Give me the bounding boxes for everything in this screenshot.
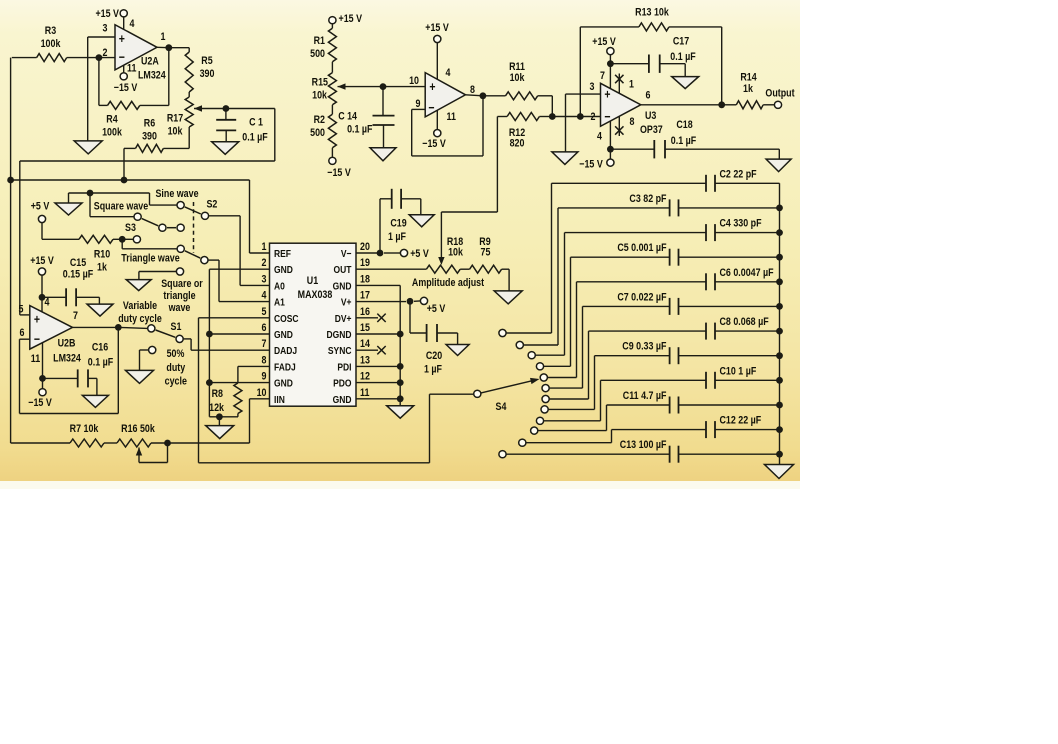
wire R16 to IIN pin 10 bbox=[168, 442, 250, 444]
resistor R7 10k bbox=[70, 423, 99, 435]
svg-text:GND: GND bbox=[274, 264, 293, 276]
ground U2A +input bbox=[74, 141, 102, 154]
svg-text:C7 0.022 µF: C7 0.022 µF bbox=[617, 292, 666, 304]
svg-text:wave: wave bbox=[168, 302, 191, 314]
pin 12 PDO bbox=[333, 378, 352, 390]
svg-text:10: 10 bbox=[257, 387, 267, 399]
wire V+ pin 17 to +5V bbox=[356, 301, 406, 303]
ground C20 bbox=[446, 345, 469, 356]
buffer feedback wire bbox=[412, 108, 426, 110]
svg-text:0.1 µF: 0.1 µF bbox=[88, 357, 113, 369]
svg-text:PDO: PDO bbox=[333, 378, 352, 390]
pin 15 DGND bbox=[326, 329, 351, 341]
node GND pin 9 bbox=[206, 379, 213, 386]
potentiometer R15 10k bbox=[312, 77, 329, 89]
node U2A inverting input bbox=[96, 54, 103, 61]
node R10 / triangle line bbox=[119, 236, 126, 243]
-15V terminal R2 bbox=[329, 157, 336, 164]
svg-text:C20: C20 bbox=[426, 350, 443, 362]
svg-text:3: 3 bbox=[103, 23, 108, 35]
pin 16 DV+ no-connect X bbox=[356, 317, 378, 319]
node GND pin 6 bbox=[206, 331, 213, 338]
pin 13 PDI bbox=[337, 362, 351, 374]
capacitor C18 0.1uF bbox=[676, 119, 693, 131]
svg-text:REF: REF bbox=[274, 248, 291, 260]
svg-text:17: 17 bbox=[360, 290, 370, 302]
svg-text:−: − bbox=[34, 331, 40, 346]
node bus C12 bbox=[776, 426, 783, 433]
ground capacitor bus bbox=[765, 465, 794, 479]
svg-text:C 1: C 1 bbox=[249, 117, 263, 129]
svg-text:3: 3 bbox=[262, 274, 267, 286]
svg-text:6: 6 bbox=[262, 322, 267, 334]
svg-text:11: 11 bbox=[127, 63, 137, 75]
capacitor C2 22 pF bbox=[552, 182, 707, 184]
wire U2A +input to ground bbox=[88, 36, 115, 38]
node C14 tap bbox=[380, 83, 387, 90]
resistor R3 100k bbox=[45, 25, 57, 37]
pin 20 V- bbox=[341, 248, 352, 260]
node U2B output bbox=[115, 324, 122, 331]
svg-text:−15 V: −15 V bbox=[422, 138, 446, 150]
capacitor C16 0.1uF bbox=[92, 342, 109, 354]
svg-text:390: 390 bbox=[200, 68, 215, 80]
svg-text:11: 11 bbox=[31, 353, 41, 365]
wire left rail R3/R7 bbox=[10, 58, 12, 443]
node C16 tap bbox=[39, 375, 46, 382]
svg-text:R4: R4 bbox=[106, 114, 118, 126]
svg-text:10k: 10k bbox=[168, 126, 183, 138]
pin 7 DADJ bbox=[274, 345, 297, 357]
svg-text:+15 V: +15 V bbox=[339, 13, 363, 25]
wire GND bus to ground bbox=[209, 416, 238, 418]
capacitor C3 82 pF bbox=[558, 207, 670, 209]
svg-text:OP37: OP37 bbox=[640, 124, 663, 136]
svg-text:1 µF: 1 µF bbox=[424, 364, 442, 376]
wire S4 contact 8 riser bbox=[594, 356, 596, 410]
op-amp U2B LM324 bbox=[30, 306, 73, 350]
svg-text:cycle: cycle bbox=[165, 376, 188, 388]
svg-text:C12 22 µF: C12 22 µF bbox=[720, 415, 762, 427]
R18 wiper from R12 bbox=[438, 257, 444, 265]
svg-text:+: + bbox=[34, 311, 40, 326]
node bus C13 bbox=[776, 451, 783, 458]
svg-text:S3: S3 bbox=[125, 222, 136, 234]
square-or-triangle output terminal bbox=[176, 268, 183, 275]
svg-text:+15 V: +15 V bbox=[425, 22, 449, 34]
svg-text:V+: V+ bbox=[341, 297, 352, 309]
IC U1 MAX038 bbox=[270, 243, 357, 406]
wire S4 contact 3 riser bbox=[564, 233, 566, 356]
node U3 feedback tie bbox=[577, 113, 584, 120]
svg-text:R17: R17 bbox=[167, 113, 184, 125]
svg-text:MAX038: MAX038 bbox=[298, 289, 333, 301]
ground C16 bbox=[82, 395, 108, 407]
svg-text:GND: GND bbox=[274, 329, 293, 341]
node C18 tap bbox=[607, 146, 614, 153]
svg-text:R14: R14 bbox=[740, 72, 757, 84]
wire S2 pole to A0 pin 3 bbox=[209, 215, 240, 217]
svg-text:U3: U3 bbox=[645, 110, 657, 122]
svg-text:C 14: C 14 bbox=[338, 111, 357, 123]
svg-text:C6 0.0047 µF: C6 0.0047 µF bbox=[720, 267, 774, 279]
switch S2b blade bbox=[185, 251, 200, 258]
switch S4 contact 8 bbox=[541, 406, 548, 413]
buffer -15V terminal bbox=[436, 110, 438, 129]
svg-text:DGND: DGND bbox=[326, 329, 351, 341]
potentiometer R17 10k bbox=[167, 113, 184, 125]
node R8 ground bbox=[216, 413, 223, 420]
resistor R12 820 bbox=[509, 127, 526, 139]
svg-text:4: 4 bbox=[45, 297, 50, 309]
svg-text:C5 0.001 µF: C5 0.001 µF bbox=[617, 242, 666, 254]
svg-text:7: 7 bbox=[73, 310, 78, 322]
node DGND pin 15 bbox=[397, 331, 404, 338]
capacitor C7 0.022 uF bbox=[583, 305, 670, 307]
wire C1 node to U2B +input bbox=[19, 161, 21, 315]
capacitor C6 0.0047 uF bbox=[577, 281, 707, 283]
ground R8/GND pins bbox=[206, 426, 234, 439]
potentiometer R16 50k bbox=[121, 423, 155, 435]
node R16 wiper tie bbox=[164, 440, 171, 447]
svg-text:100k: 100k bbox=[41, 38, 61, 50]
U3 +15V terminal bbox=[592, 36, 616, 48]
node bus C7 bbox=[776, 303, 783, 310]
capacitor C20 1uF bbox=[426, 350, 443, 362]
capacitor C9 0.33 uF bbox=[595, 355, 670, 357]
svg-text:Variable: Variable bbox=[123, 300, 158, 312]
svg-text:R2: R2 bbox=[314, 114, 326, 126]
node U3 output bbox=[641, 104, 722, 106]
op-amp U2 buffer bbox=[425, 73, 465, 117]
svg-text:7: 7 bbox=[600, 70, 605, 82]
wire COSC pin 5 bbox=[199, 317, 270, 319]
switch S2b triangle contact bbox=[177, 245, 184, 252]
capacitor C12 22 uF bbox=[612, 429, 707, 431]
wire square select bbox=[89, 193, 91, 217]
terminal +5V at V- bbox=[400, 249, 407, 256]
svg-text:C18: C18 bbox=[676, 119, 693, 131]
capacitor C4 330 pF bbox=[565, 232, 707, 234]
svg-text:Output: Output bbox=[765, 88, 795, 100]
svg-text:GND: GND bbox=[274, 378, 293, 390]
node bus C10 bbox=[776, 377, 783, 384]
wire GND pin 2 bus bbox=[209, 268, 269, 270]
svg-text:C13 100 µF: C13 100 µF bbox=[620, 439, 667, 451]
svg-text:V−: V− bbox=[341, 248, 352, 260]
svg-text:+15 V: +15 V bbox=[30, 255, 54, 267]
wire triangle select bbox=[121, 239, 123, 249]
label triangle wave bbox=[121, 253, 180, 265]
svg-text:C19: C19 bbox=[390, 218, 407, 230]
node bus C6 bbox=[776, 278, 783, 285]
svg-text:+: + bbox=[429, 79, 435, 94]
svg-text:9: 9 bbox=[262, 371, 267, 383]
switch S4 contact 11 bbox=[519, 439, 526, 446]
ground square-or-triangle bbox=[126, 280, 151, 291]
svg-text:820: 820 bbox=[510, 138, 525, 150]
buffer +15V terminal bbox=[425, 22, 449, 34]
wire S4 contact 1 riser bbox=[551, 183, 553, 333]
wire V- pin 20 to +5V bbox=[356, 252, 380, 254]
svg-text:2: 2 bbox=[262, 257, 267, 269]
svg-text:+15 V: +15 V bbox=[95, 8, 119, 20]
ground C1 bbox=[212, 142, 239, 155]
svg-text:PDI: PDI bbox=[337, 362, 351, 374]
switch S1 variable contact bbox=[118, 327, 147, 328]
svg-text:R6: R6 bbox=[144, 118, 156, 130]
wire wiper node to U2B loop bbox=[226, 108, 275, 110]
svg-text:0.1 µF: 0.1 µF bbox=[242, 132, 267, 144]
node bus C11 bbox=[776, 402, 783, 409]
svg-text:R16 50k: R16 50k bbox=[121, 423, 155, 435]
op-amp U3 OP37 bbox=[601, 83, 641, 126]
label square wave bbox=[94, 201, 149, 213]
svg-text:500: 500 bbox=[310, 48, 325, 60]
switch S4 wiper arrow bbox=[481, 380, 534, 393]
capacitor bus to ground bbox=[779, 183, 781, 464]
svg-text:5: 5 bbox=[19, 304, 24, 316]
U3 offset pin 8 X bbox=[618, 116, 620, 136]
svg-text:R13 10k: R13 10k bbox=[635, 7, 669, 19]
svg-text:9: 9 bbox=[416, 98, 421, 110]
svg-text:C8 0.068 µF: C8 0.068 µF bbox=[720, 316, 769, 328]
svg-text:50%: 50% bbox=[167, 348, 185, 360]
wire OUT pin 19 bbox=[356, 268, 426, 270]
switch S4 contact 10 bbox=[531, 427, 538, 434]
pin 14 SYNC bbox=[328, 345, 352, 357]
svg-text:+: + bbox=[604, 86, 610, 101]
node R6 on REF bus bbox=[121, 177, 128, 184]
svg-text:4: 4 bbox=[446, 67, 451, 79]
svg-text:10: 10 bbox=[409, 75, 419, 87]
svg-text:−15 V: −15 V bbox=[114, 82, 138, 94]
svg-text:GND: GND bbox=[333, 281, 352, 293]
svg-text:0.1 µF: 0.1 µF bbox=[347, 124, 372, 136]
svg-text:LM324: LM324 bbox=[53, 353, 81, 365]
svg-text:11: 11 bbox=[360, 387, 370, 399]
svg-text:Square or: Square or bbox=[161, 278, 203, 290]
+5V terminal R10 bbox=[31, 201, 50, 213]
svg-text:−: − bbox=[428, 100, 434, 115]
resistor R9 75 bbox=[479, 236, 491, 248]
ground C15 bbox=[87, 304, 113, 316]
svg-text:12k: 12k bbox=[209, 402, 224, 414]
svg-text:−15 V: −15 V bbox=[579, 159, 603, 171]
node U2A output pin 1 bbox=[161, 31, 166, 43]
svg-text:13: 13 bbox=[360, 355, 370, 367]
node square tap bbox=[87, 190, 94, 197]
node R17 wiper / C1 bbox=[223, 105, 230, 112]
potentiometer R18 10k bbox=[447, 236, 464, 248]
svg-text:5: 5 bbox=[262, 306, 267, 318]
resistor R1 500 bbox=[314, 35, 326, 47]
node PDI pin 13 bbox=[397, 363, 404, 370]
ground C17 bbox=[672, 77, 699, 89]
svg-text:Sine wave: Sine wave bbox=[155, 188, 198, 200]
+15V terminal R1 bbox=[339, 13, 363, 25]
svg-text:S2: S2 bbox=[207, 199, 218, 211]
svg-text:4: 4 bbox=[130, 18, 135, 30]
svg-text:FADJ: FADJ bbox=[274, 362, 296, 374]
svg-text:triangle: triangle bbox=[163, 290, 196, 302]
svg-text:+: + bbox=[119, 31, 125, 46]
svg-text:6: 6 bbox=[20, 327, 25, 339]
svg-text:1: 1 bbox=[629, 79, 634, 91]
pin 2 GND bbox=[274, 264, 293, 276]
node bus C9 bbox=[776, 352, 783, 359]
pin 6 GND bbox=[274, 329, 293, 341]
node bus C5 bbox=[776, 254, 783, 261]
svg-text:C15: C15 bbox=[70, 257, 87, 269]
wire S1 pole to DADJ pin 7 bbox=[184, 338, 192, 340]
svg-text:C10 1 µF: C10 1 µF bbox=[720, 366, 757, 378]
label variable duty cycle bbox=[123, 300, 158, 312]
node bus C8 bbox=[776, 328, 783, 335]
R16 wiper arrow bbox=[136, 448, 142, 456]
wire S4 contact 6 riser bbox=[582, 306, 584, 388]
svg-text:A1: A1 bbox=[274, 297, 285, 309]
svg-text:11: 11 bbox=[447, 111, 457, 123]
svg-text:OUT: OUT bbox=[334, 264, 352, 276]
pin 3 A0 bbox=[274, 281, 285, 293]
svg-text:500: 500 bbox=[310, 127, 325, 139]
resistor R13 10k feedback bbox=[635, 7, 669, 19]
svg-text:19: 19 bbox=[360, 257, 370, 269]
pin 5 COSC bbox=[274, 313, 299, 325]
pin 16 DV+ bbox=[335, 313, 352, 325]
pin 9 GND bbox=[274, 378, 293, 390]
wire S4 contact 4 riser bbox=[570, 257, 572, 366]
svg-text:C3 82 pF: C3 82 pF bbox=[629, 193, 666, 205]
U2B +15V terminal bbox=[30, 255, 54, 267]
svg-text:A0: A0 bbox=[274, 281, 285, 293]
capacitor C1 0.1uF bbox=[249, 117, 263, 129]
switch S2 pole bbox=[201, 212, 208, 219]
wire S4 contact 10 riser bbox=[606, 405, 608, 431]
node C15 tap bbox=[39, 294, 46, 301]
svg-text:1k: 1k bbox=[743, 83, 753, 95]
switch S1 blade bbox=[156, 330, 176, 337]
svg-text:C4 330 pF: C4 330 pF bbox=[720, 218, 762, 230]
switch S4 contact 6 bbox=[542, 385, 549, 392]
wire S4 contact 2 riser bbox=[557, 208, 559, 345]
node PDO pin 12 bbox=[397, 379, 404, 386]
ganged switch dashed link bbox=[193, 202, 195, 253]
svg-text:6: 6 bbox=[646, 90, 651, 102]
svg-text:−: − bbox=[119, 49, 125, 64]
svg-text:U2A: U2A bbox=[141, 56, 159, 68]
svg-text:+5 V: +5 V bbox=[410, 248, 429, 260]
svg-text:C16: C16 bbox=[92, 342, 109, 354]
wire R6 to REF bus bbox=[123, 148, 125, 180]
svg-text:R3: R3 bbox=[45, 25, 57, 37]
svg-text:Square wave: Square wave bbox=[94, 201, 149, 213]
wire to U3 -input bbox=[552, 116, 600, 118]
switch S4 contact 1 bbox=[499, 329, 506, 336]
node bus C4 bbox=[776, 229, 783, 236]
switch S2 sine contact bbox=[177, 202, 184, 209]
svg-text:U1: U1 bbox=[307, 275, 319, 287]
pin 8 FADJ bbox=[274, 362, 296, 374]
wire REF bus to MAX038 pin 1 bbox=[11, 179, 250, 181]
svg-text:R8: R8 bbox=[212, 388, 224, 400]
svg-text:2: 2 bbox=[591, 111, 596, 123]
svg-text:−15 V: −15 V bbox=[327, 167, 351, 179]
ground C19 bbox=[409, 215, 434, 227]
resistor R10 1k bbox=[94, 249, 111, 261]
pin 10 IIN bbox=[274, 394, 285, 406]
pin 17 V+ bbox=[341, 297, 352, 309]
U3 offset pin 1 X bbox=[618, 74, 620, 94]
switch S3 blade bbox=[142, 219, 158, 226]
pin 18 GND bbox=[333, 281, 352, 293]
pin 14 SYNC no-connect X bbox=[356, 349, 378, 351]
svg-text:S4: S4 bbox=[496, 401, 507, 413]
pin 4 A1 bbox=[274, 297, 285, 309]
svg-text:390: 390 bbox=[142, 131, 157, 143]
switch S1 50% contact bbox=[149, 346, 156, 353]
switch S4 contact 9 bbox=[536, 417, 543, 424]
svg-text:4: 4 bbox=[597, 131, 602, 143]
ground C18 bbox=[766, 159, 791, 172]
switch S3 square contact bbox=[134, 213, 141, 220]
wire S4 contact 11 riser bbox=[611, 430, 613, 443]
svg-text:7: 7 bbox=[262, 338, 267, 350]
svg-text:R5: R5 bbox=[201, 55, 213, 67]
svg-text:1: 1 bbox=[161, 31, 166, 43]
node left rail / REF bus bbox=[7, 177, 14, 184]
svg-text:1: 1 bbox=[262, 241, 267, 253]
svg-text:16: 16 bbox=[360, 306, 370, 318]
resistor R4 100k feedback bbox=[106, 114, 118, 126]
capacitor C13 100 uF bbox=[507, 453, 670, 455]
R17 wiper arrow bbox=[194, 105, 202, 111]
resistor R14 1k bbox=[740, 72, 757, 84]
ground U3 +input bbox=[552, 152, 578, 165]
resistor R8 12k bbox=[212, 388, 224, 400]
node V+ / C20 bbox=[407, 298, 414, 305]
terminal variable duty bbox=[133, 236, 140, 243]
wire S4 contact 9 riser bbox=[600, 380, 602, 421]
Output terminal bbox=[774, 101, 781, 108]
svg-text:IIN: IIN bbox=[274, 394, 285, 406]
svg-text:8: 8 bbox=[630, 116, 635, 128]
pin 19 OUT bbox=[334, 264, 352, 276]
svg-text:Triangle wave: Triangle wave bbox=[121, 253, 180, 265]
U3 +input ground wire bbox=[566, 93, 601, 95]
ground digital bus bbox=[387, 406, 414, 419]
svg-text:75: 75 bbox=[481, 247, 491, 259]
U2B feedback loop wire bbox=[117, 327, 119, 413]
U3 -15V terminal bbox=[609, 121, 611, 159]
svg-text:0.1 µF: 0.1 µF bbox=[671, 135, 696, 147]
ground R9 bbox=[494, 291, 522, 304]
resistor R5 390 bbox=[201, 55, 213, 67]
svg-text:R10: R10 bbox=[94, 249, 111, 261]
ground sine/square select bbox=[55, 203, 82, 215]
svg-text:+5 V: +5 V bbox=[427, 303, 446, 315]
capacitor C14 0.1uF bbox=[338, 111, 357, 123]
svg-text:0.15 µF: 0.15 µF bbox=[63, 269, 93, 281]
svg-text:U2B: U2B bbox=[58, 338, 76, 350]
ground 50% duty bbox=[126, 370, 154, 383]
switch S4 contact 5 bbox=[540, 374, 547, 381]
node GND pin 11 bbox=[397, 395, 404, 402]
resistor R2 500 bbox=[314, 114, 326, 126]
capacitor C15 0.15uF bbox=[70, 257, 87, 269]
U2A -15V supply terminal bbox=[123, 66, 125, 73]
